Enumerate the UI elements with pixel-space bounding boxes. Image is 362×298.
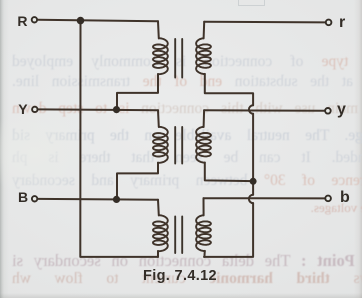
label y bbox=[337, 102, 346, 118]
label R bbox=[17, 14, 27, 28]
wire neutral bus upper bbox=[252, 114, 254, 195]
caption Fig. 7.4.12 bbox=[143, 269, 217, 284]
primary winding P2 bbox=[153, 127, 168, 163]
wire T2 primary bottom lead bbox=[117, 163, 158, 200]
label b bbox=[340, 190, 350, 206]
wire T2 secondary bottom lead bbox=[205, 163, 253, 182]
secondary winding S3 bbox=[196, 215, 211, 251]
terminal b bbox=[325, 196, 331, 202]
wire T1 primary bottom lead bbox=[117, 74, 158, 110]
terminal r bbox=[326, 20, 332, 26]
junction dot Y bbox=[113, 106, 120, 113]
terminal R bbox=[32, 17, 37, 22]
primary winding P1 bbox=[153, 38, 168, 74]
primary winding P3 bbox=[153, 215, 168, 251]
hop over b line bbox=[249, 195, 253, 203]
junction dot neutral bbox=[250, 178, 257, 185]
junction dot B bbox=[113, 196, 120, 203]
wire y line bbox=[204, 109, 325, 112]
wire b line bbox=[204, 197, 326, 199]
mirrored harmonic row (right part only) bbox=[12, 271, 362, 286]
hop over y line bbox=[249, 105, 253, 113]
wire T2 secondary top lead bbox=[203, 110, 206, 127]
label Y bbox=[18, 102, 27, 116]
core T2 bbox=[175, 127, 182, 164]
mirrored Key Point row bbox=[12, 253, 362, 268]
mirrored show-through text from reverse page bbox=[12, 54, 362, 69]
wire left delta bus bbox=[80, 20, 158, 257]
terminal Y bbox=[32, 107, 37, 112]
wire R line bbox=[38, 20, 158, 22]
core T3 bbox=[175, 217, 182, 254]
wire T1 secondary top lead bbox=[203, 22, 206, 39]
wire B line bbox=[38, 198, 158, 201]
short mirrored line: "line voltages." bbox=[286, 200, 362, 215]
wire neutral bus lower bbox=[204, 203, 253, 257]
wire r line bbox=[204, 21, 326, 24]
terminal B bbox=[32, 196, 37, 201]
wire T3 primary bottom lead bbox=[157, 251, 159, 257]
terminal y bbox=[325, 108, 331, 114]
mirrored figure box fragment at top bbox=[238, 0, 265, 6]
wire T3 secondary top lead bbox=[203, 198, 205, 215]
wire T2 primary top lead bbox=[157, 110, 160, 127]
label r bbox=[339, 15, 345, 31]
wire T1 primary top lead bbox=[157, 21, 160, 38]
label B bbox=[18, 190, 28, 204]
wire T3 primary top lead bbox=[157, 200, 160, 216]
secondary winding S1 bbox=[196, 38, 211, 74]
wire T3 secondary bottom lead bbox=[203, 251, 205, 257]
wire T1 secondary bottom lead to neutral bus bbox=[205, 74, 253, 105]
wire Y line bbox=[38, 108, 158, 111]
local fade patch over left-middle text bbox=[0, 110, 90, 195]
junction dot R/bus bbox=[77, 17, 85, 25]
secondary winding S2 bbox=[196, 127, 211, 163]
core T1 bbox=[175, 39, 182, 78]
